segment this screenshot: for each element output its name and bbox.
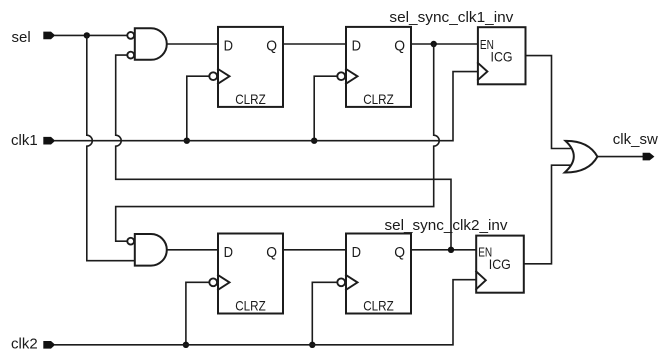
- bubble G2 top input: [127, 238, 134, 245]
- flip-flop FF3: [209, 234, 283, 314]
- clock triangle ICG2: [476, 272, 486, 290]
- wire G2 output to FF3 D: [167, 249, 218, 251]
- svg-text:clk2: clk2: [11, 336, 38, 353]
- svg-text:D: D: [224, 244, 234, 261]
- clock bubble FF4: [337, 278, 345, 286]
- wire FF4 clock to clk2 rail: [312, 282, 337, 345]
- svg-text:CLRZ: CLRZ: [235, 298, 266, 314]
- wire clk2 rail to ICG2 clock: [55, 280, 476, 345]
- wire FF1 Q to FF2 D: [283, 43, 346, 45]
- svg-text:Q: Q: [394, 244, 405, 261]
- svg-text:D: D: [224, 37, 234, 54]
- svg-text:sel: sel: [12, 29, 31, 46]
- or-gate G3: [565, 141, 598, 173]
- clock bubble FF1: [209, 72, 217, 80]
- svg-text:Q: Q: [394, 37, 405, 54]
- clock triangle FF3: [218, 275, 230, 290]
- node FF2 clock on clk1 rail: [311, 138, 317, 144]
- wire FF1 clock to clk1 rail: [187, 76, 210, 141]
- node FF4 clock on clk2 rail: [309, 342, 315, 348]
- wire clk1 rail to ICG1 clock: [55, 72, 478, 141]
- wire FF4 Q to ICG2 EN: [411, 249, 476, 251]
- wire FF3 Q to FF4 D: [283, 249, 346, 251]
- wire sel to gate G1 top input: [55, 34, 127, 36]
- node sel junction: [84, 32, 90, 38]
- node sel_sync_clk2_inv junction: [448, 247, 454, 253]
- svg-text:Q: Q: [266, 37, 277, 54]
- wire FF2 clock to clk1 rail: [314, 76, 337, 141]
- flip-flop FF1: [209, 27, 283, 107]
- icg U1 (ICG top): [478, 27, 526, 84]
- bubble G1 top input: [127, 32, 134, 39]
- wire FF3 clock to clk2 rail: [186, 282, 209, 345]
- svg-text:CLRZ: CLRZ: [363, 91, 394, 107]
- wire ICG1 output to OR gate top input: [526, 56, 572, 149]
- node sel_sync_clk1_inv junction: [431, 41, 437, 47]
- input terminal clk2: [43, 341, 55, 349]
- svg-text:D: D: [352, 37, 362, 54]
- clock bubble FF2: [337, 72, 345, 80]
- svg-text:ICG: ICG: [491, 49, 513, 65]
- clock triangle FF2: [346, 69, 358, 84]
- svg-text:clk_sw: clk_sw: [613, 131, 658, 148]
- input terminal clk1: [43, 137, 55, 145]
- svg-text:CLRZ: CLRZ: [235, 91, 266, 107]
- wire FF2 Q to ICG1 EN: [411, 43, 478, 45]
- svg-text:Q: Q: [266, 244, 277, 261]
- clock triangle FF1: [218, 69, 230, 84]
- gate G1 (AND with inverted inputs): [135, 28, 167, 60]
- svg-text:CLRZ: CLRZ: [363, 298, 394, 314]
- output terminal clk_sw: [643, 153, 655, 161]
- svg-text:D: D: [352, 244, 362, 261]
- svg-text:ICG: ICG: [489, 256, 511, 272]
- svg-text:clk1: clk1: [11, 132, 38, 149]
- bubble G1 bottom input: [127, 52, 134, 59]
- wire G1 lower input feedback from sel_sync_clk2_inv junction: [116, 55, 451, 250]
- wire OR output to clk_sw: [597, 156, 642, 158]
- clock bubble FF3: [209, 278, 217, 286]
- wire sel_sync_clk1_inv feedback to gate G2 top input (hops clk1 rail): [116, 44, 440, 241]
- gate G2 (AND with inverted input): [135, 234, 167, 266]
- flip-flop FF2: [337, 27, 411, 107]
- flip-flop FF4: [337, 234, 411, 314]
- input terminal sel: [43, 32, 55, 40]
- wire sel junction down to gate G2 lower input (hops clk1 rail): [87, 35, 135, 260]
- node FF1 clock on clk1 rail: [184, 138, 190, 144]
- wire G1 output to FF1 D: [167, 43, 218, 45]
- clock triangle ICG1: [478, 63, 488, 80]
- clock triangle FF4: [346, 275, 358, 290]
- svg-text:sel_sync_clk2_inv: sel_sync_clk2_inv: [385, 217, 508, 234]
- icg U2 (ICG bottom): [476, 236, 524, 293]
- node FF3 clock on clk2 rail: [183, 342, 189, 348]
- svg-text:sel_sync_clk1_inv: sel_sync_clk1_inv: [389, 9, 513, 26]
- wire ICG2 output to OR gate bottom input: [524, 165, 571, 264]
